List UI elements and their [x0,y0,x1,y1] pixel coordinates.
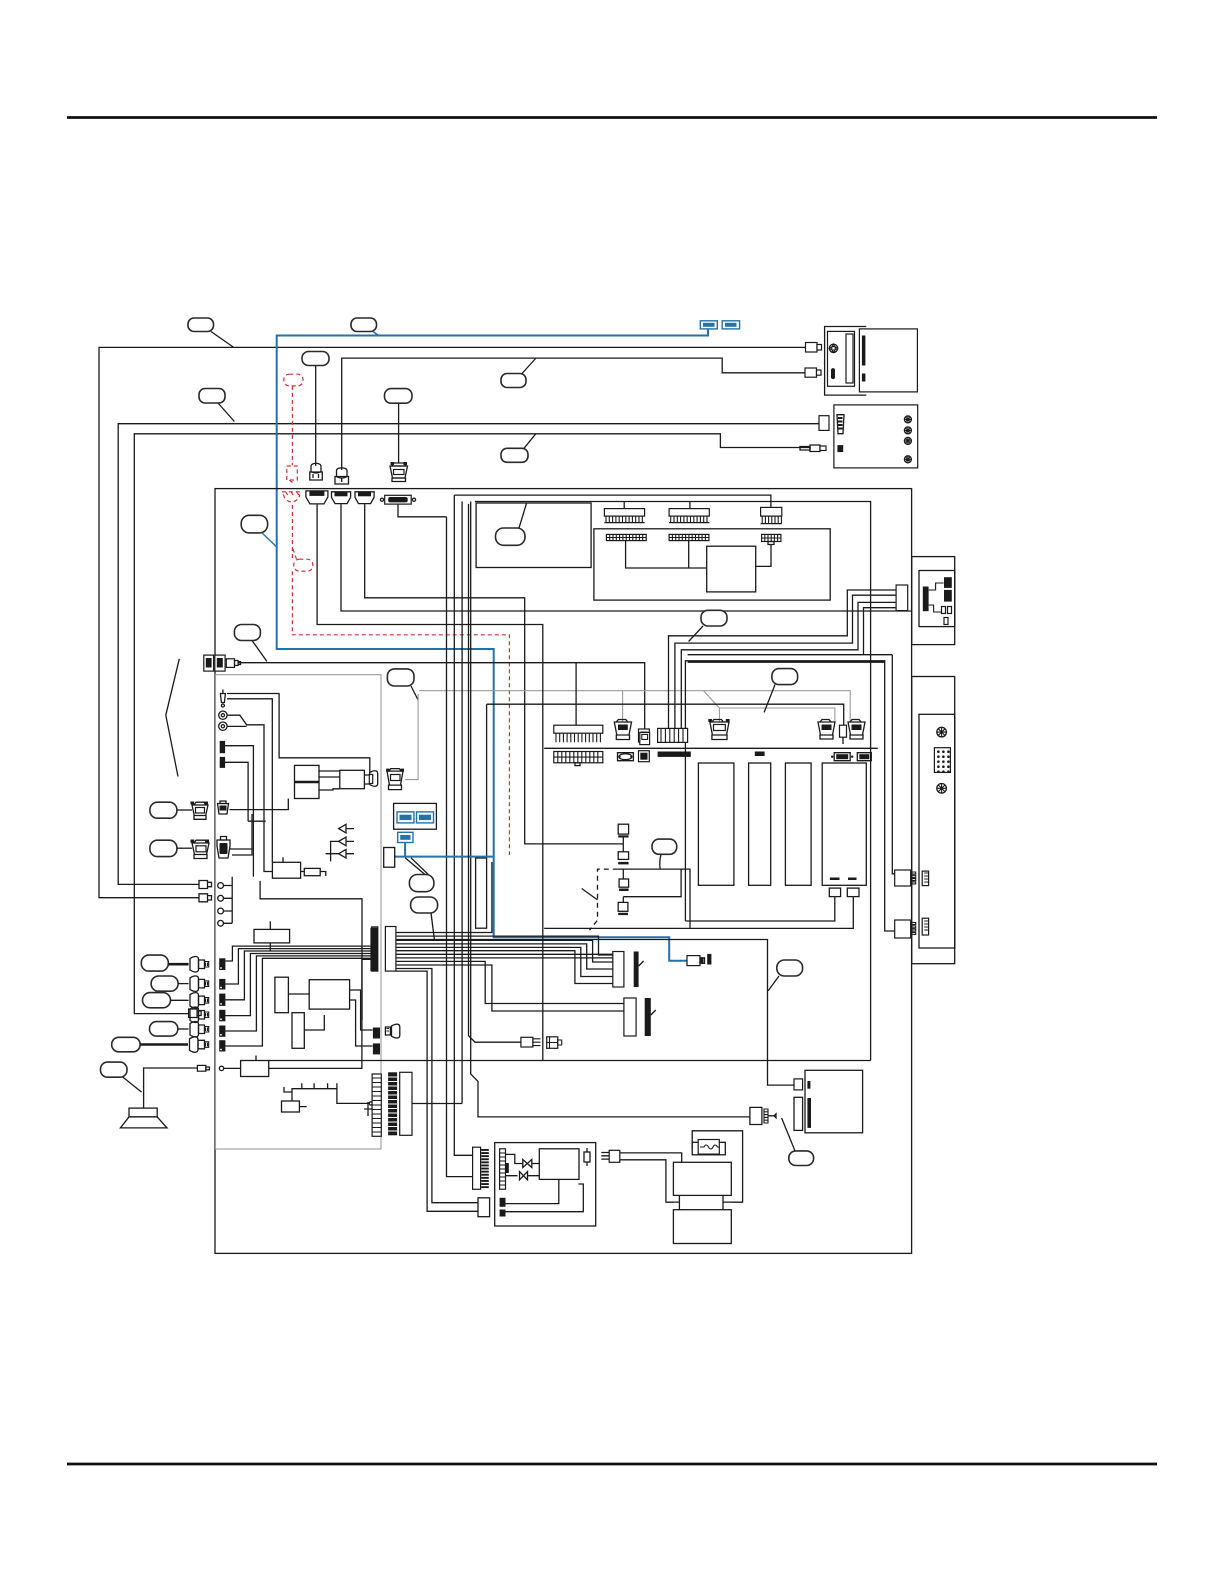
monitor box M [476,503,591,568]
mc black bits [500,1198,506,1217]
blue usb icon p1 [397,812,414,823]
barrel plug W5 right [800,445,826,452]
callout K27 [782,1118,814,1166]
callout K3 [302,352,329,466]
R2 screw 1 [937,727,947,737]
A5b wire right up [269,959,372,1068]
callout K13 [150,802,192,818]
device2 screws [904,416,911,463]
box R1 outer [912,557,955,645]
audio box A4 [292,1013,304,1049]
callout K7 [234,625,267,662]
callout K14 [150,840,192,856]
DVI pair right on slotD [848,720,865,740]
callout K6 [501,434,536,462]
DVI on slotA [708,719,729,740]
comb connector c3 [761,507,782,523]
plug 4 [190,1007,209,1022]
dashed psu corner [590,869,618,930]
glyph small [755,752,765,757]
wire y704 to small plug [487,704,844,725]
gears column [218,877,232,926]
small plug between [840,725,847,744]
box R1 inner [919,571,955,627]
sq R below D [847,888,859,897]
DVI mid [614,720,631,740]
header bundle wires [225,946,372,961]
plug P-W5 left [189,1009,202,1018]
connector W2 [624,998,656,1036]
P1 pin header [554,725,603,742]
line LB [454,495,771,507]
audio box A3 [275,977,289,1013]
power sq3 [619,869,629,891]
printer media slot [862,336,866,382]
glyph DB9g [618,753,634,761]
wire band to R1: y611 [341,504,912,611]
bracket lead [166,659,180,777]
slot D dashes [830,878,857,881]
speaker plug [197,1065,209,1071]
ribbon bar right edge [372,927,378,971]
box R2 inner [919,714,955,948]
DB9W plug [750,1107,776,1124]
gray slant branch [704,691,835,722]
cage box [685,661,894,931]
R2 screw 2 [937,784,947,794]
ethernet plug [226,659,240,668]
USB plug W4 right [805,368,821,377]
PSU 8pin connector [896,585,908,611]
plug 1 [190,957,209,972]
cage bottom wire to sqL [685,897,834,921]
mc bottom wires [505,1179,583,1212]
DVI pair L1 [191,802,209,820]
power sq1 [618,824,628,844]
h2 wire [225,762,266,821]
USB plug left-bottom [385,1024,399,1038]
callout K15 [141,955,188,971]
gray left drop to DVI [405,694,418,780]
ribbon wire right [412,1103,462,1105]
callout K5 [501,359,536,388]
top rule [67,116,1157,119]
callout K4 [199,389,234,422]
AC cable [620,1153,682,1202]
DB15 wire [398,504,447,517]
mc diodes [506,1154,540,1179]
media slot white [794,1097,803,1130]
mid plug A [521,1037,541,1047]
vertical v3 [471,502,750,1117]
mc ribbon [500,1149,509,1189]
h1 wire [225,746,254,877]
blue usb icon p2 [417,812,434,823]
printer right box [859,329,917,392]
VGA pair L2 [191,840,210,859]
ribbon pair mid [388,1072,412,1135]
molex feed A [892,655,894,874]
fuse loop [692,1131,742,1202]
grid g1 [606,534,646,540]
narrow box [476,858,487,928]
DVI glyph left [386,769,404,790]
wire W4 [342,358,805,470]
callout K21 blue [409,875,434,892]
molex feed B [688,661,885,663]
wire band y624.5 [365,504,624,844]
PSU wire 3 [681,602,896,728]
vertical v2 [454,495,472,1155]
red dashed callout KR1 [284,374,303,386]
harness ribbon [370,928,378,971]
callout K1 [188,318,234,347]
wire W5 [134,434,810,1014]
red dashed drop [291,386,293,465]
callout K26 [768,960,802,991]
mobo left edge [317,504,543,1060]
USB plug K3 [310,463,323,480]
media converter box [495,1143,596,1226]
mid plug pair wire [469,504,521,1042]
blue panel slants [405,858,428,875]
red dashed socket [282,492,302,502]
P1 feed [575,663,577,725]
callout K4b [385,389,413,463]
mobo top line [544,747,878,749]
cpu square [707,546,756,592]
top middle box [594,529,830,600]
glyph DB9g3 [857,753,871,761]
harness connector [385,927,396,972]
blue main cable [277,330,708,961]
speaker wire [144,1068,198,1108]
gray drop mid [622,691,624,722]
long wire y928 to sqR [544,897,853,929]
mc resistor [584,1148,590,1166]
RCA wires [227,715,264,829]
socket b1 [306,491,328,504]
power assembly: AC plug [601,1150,620,1162]
box5 [304,868,320,875]
VGA socket glyph [217,837,230,859]
dash ticks [582,889,598,900]
box A5 [282,1101,307,1112]
slot B [749,763,771,885]
g3 wire [756,545,771,567]
callout K19 [112,1037,188,1052]
ethernet jack 2 [215,655,225,671]
red dashed callout KR2 [292,547,312,571]
bottom rule [67,1463,1157,1466]
tri wires [326,829,354,862]
device2 box [834,405,918,468]
molex mate bars [922,871,928,935]
slot C [785,763,811,885]
harness extra wire [260,881,362,1020]
plug 3 [190,993,209,1008]
callout K23 [652,839,677,869]
plug P-W3 left [199,881,212,889]
right bars [373,1028,380,1055]
ethernet socket on mobo [640,732,650,744]
transformer box [673,1162,731,1195]
media slot black [807,1098,811,1128]
box1 [295,765,320,781]
PSU wire 1 [669,590,897,728]
media feed plug [794,1079,803,1090]
media slot bar [807,1081,810,1089]
mid plug B [547,1037,562,1049]
molex plug 0 [895,870,916,886]
USB plug P-W1 left [199,894,212,902]
PSU wire 4 [688,608,897,655]
printer inner box [828,331,855,386]
socket b3 [355,492,374,504]
ethernet jack 1 [204,655,214,671]
power sq4 [618,897,628,915]
triangles [339,824,346,858]
callout K11 [496,503,527,545]
printer slot bars [831,334,853,383]
vertical v4 [486,704,488,858]
blue USB plug end [687,954,711,966]
speaker [120,1108,167,1128]
box A5b [241,1056,269,1077]
RCA 1 [219,711,227,719]
sq L below D [829,888,840,897]
DVI pair left on slotD [818,720,835,740]
battery box [673,1210,731,1244]
grid g2 [669,534,709,540]
gray panel box [216,675,382,1149]
g1-g2 wires to square [626,541,707,568]
miniDIN wire [230,799,289,810]
box4 [272,857,300,878]
ribbon bar 2 [364,1074,381,1136]
c2 stub [689,502,691,509]
box R2 outer [912,677,955,964]
slot D [822,763,866,885]
miniDIN [218,801,229,814]
box1-box3 wires [318,771,339,790]
R1 contents [923,577,952,624]
gray net H1 [419,691,850,722]
wide connector [658,728,688,742]
transformer-battery links [666,1195,743,1209]
power wire solid [618,869,690,929]
plug 2 [190,976,209,991]
mobo bottom wire [269,1060,871,1062]
wire W3 [118,424,819,885]
glyph row: grid under P1 [554,752,603,766]
blue panel box [394,803,437,829]
vertical v1 [447,517,473,1177]
USB-B plug W4 bottom [335,468,349,484]
J box [384,848,395,868]
device2 DB9 [837,415,844,434]
callout K22 [411,897,438,940]
jack wire [227,694,370,775]
blue callout K2 [351,318,379,336]
red dashed mid [291,505,293,559]
vertical v2b [461,502,463,1104]
blue callout K2b [241,515,277,547]
box3 plug [364,771,377,787]
molex plug 2 [895,920,916,938]
grid g3 [762,534,781,544]
callout K10 [764,669,798,713]
plug 6 [190,1037,209,1052]
box3 [340,770,365,788]
audio jack [220,690,225,708]
R2 DB15 [934,748,950,773]
red dashed to corner [292,571,509,855]
box2 [295,783,320,799]
slot A [698,763,734,885]
VGA glyph wires [230,814,253,855]
header h2 [220,757,225,768]
callout K17 [143,993,189,1008]
plug P-W3 right into device2 [819,416,829,431]
callout K16 [151,976,189,991]
box4-5 wires [264,829,326,876]
callout K20 [101,1062,142,1092]
bottom ribbon pair [473,1147,489,1189]
blue usb small [398,832,413,842]
audio box A1 [254,921,290,951]
header h1 [220,741,225,753]
callout K9 [689,610,727,641]
printer gear [829,344,837,352]
glyph DB9g2 [831,753,853,761]
glyph long bar [658,752,691,757]
blue panel cable [395,843,494,857]
ethernet wire [238,663,645,733]
device2 black square [837,445,843,452]
comb connector c2 [669,509,709,523]
comb connector c1 [604,509,644,523]
audio box A2 [309,980,349,1009]
line LC [475,502,871,1061]
enclosure main box [215,489,912,1254]
glyph sq2 [639,751,650,762]
wire W1 monitor-USB cable [99,347,806,897]
callout K18 [150,1022,189,1037]
c1 stub [623,502,625,509]
printer bracket [825,327,867,396]
headers a-f [219,958,225,1051]
blue USB icons top [700,321,739,329]
USB plug P-W1 right [806,343,822,353]
socket sq [639,729,650,742]
media box [805,1070,863,1133]
fuse box [692,1140,725,1155]
DB9 plug K4b [390,462,408,482]
red dashed plug [287,466,298,482]
comb glyph [284,1083,372,1105]
socket DB15 [380,495,415,504]
socket b2 [332,492,351,504]
PSU wire 2 [675,595,896,728]
audio aux wires [288,990,372,1046]
power sq2 [618,844,628,865]
sq4 wire [623,869,681,897]
connector W1 [613,952,644,988]
fan wires [396,862,492,933]
callout K8 [387,669,418,700]
mc inner box [539,1149,579,1180]
RCA 2 [219,722,227,730]
circle plug [219,1066,240,1070]
plug 5 [190,1022,209,1037]
white box bottom [478,1198,490,1217]
